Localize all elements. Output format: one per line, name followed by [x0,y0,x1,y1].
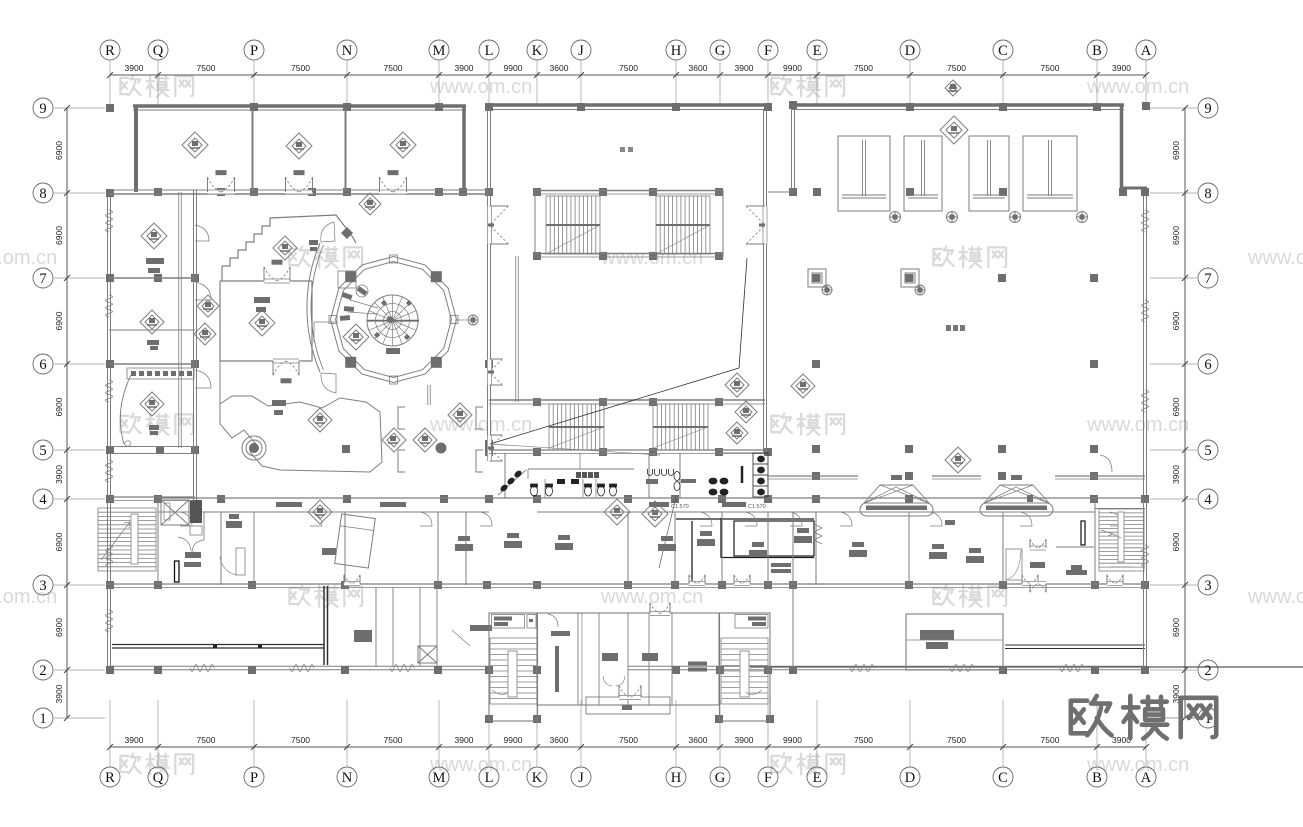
furniture [455,544,473,551]
svg-text:www.om.cn: www.om.cn [600,586,703,608]
label block d [722,502,746,507]
bracket column [398,450,405,472]
partition [375,587,377,666]
fan below court [1077,212,1088,223]
dark podium [226,521,242,528]
furniture [929,552,947,559]
mid landing bold line [546,224,600,226]
furniture [504,541,522,548]
column [812,445,820,453]
svg-text:N: N [342,770,353,786]
mid landing bold line [653,426,708,428]
column [715,448,723,456]
column [191,446,199,454]
leader [452,630,470,646]
window left wall [106,295,113,317]
left wing wall row5a [109,446,195,448]
court rectangle [904,136,942,211]
column [1119,188,1127,196]
stair hall top wall [535,190,723,192]
axis bubble C top [993,40,1013,60]
grid line 2 right stem [1150,669,1197,671]
inner petal door [603,676,625,686]
court center line [1048,140,1050,196]
svg-text:E: E [813,770,822,786]
column [766,715,774,723]
black wall v [691,521,693,584]
row 8 wall under top-left block [109,189,489,191]
spiral staircase [367,295,418,346]
svg-text:3600: 3600 [689,63,708,73]
stair top wall [1095,508,1145,510]
column [716,666,724,674]
spiral stair entry treads [341,292,352,300]
diamond entry 1 [382,428,406,452]
column [672,103,680,111]
left wing wall row5b [109,453,195,455]
tower1 lump [494,617,512,621]
axis bubble M top [429,40,449,60]
axis bubble L bottom [479,767,499,787]
corridor south wall west [158,511,489,513]
svg-text:N: N [342,43,353,59]
tiny text 平台 [620,147,625,152]
svg-text:8: 8 [1204,186,1211,202]
door arc [180,512,192,526]
diamond [735,401,757,423]
svg-text:7500: 7500 [291,735,310,745]
partition P top block [252,110,254,190]
double square symbol [901,269,919,287]
leader label [470,625,492,631]
dodecagon post [390,255,398,263]
column [649,398,657,406]
tower1 stair core [508,651,517,697]
column [217,188,225,196]
staircase bottom-left [98,508,156,571]
column [434,666,442,674]
svg-text:3900: 3900 [54,465,64,484]
axis bubble 8 right [1198,183,1218,203]
pivot door leaf [236,548,245,575]
column [106,666,114,674]
tower2 lump [748,617,766,621]
column [485,440,493,448]
svg-text:7500: 7500 [1041,735,1060,745]
watermark 欧模网 [120,75,193,96]
stair wall [157,500,159,584]
svg-text:3900: 3900 [54,684,64,703]
furniture [555,543,573,550]
big logo 欧模网 [1071,696,1216,739]
column [813,188,821,196]
diagonal toilet wall [498,470,526,495]
column [106,581,114,589]
diagonal leader 3 [490,444,660,455]
window left wall [106,460,113,482]
axis bubble A bottom [1136,767,1156,787]
court rectangle [969,136,1009,211]
diamond lower lobby [308,408,332,432]
court rectangle [838,136,890,211]
window left wall [106,380,113,402]
room wall [220,280,312,282]
window bottom wall [950,665,974,672]
staircase right [1099,509,1144,571]
axis bubble H bottom [666,767,686,787]
diamond lobby strip 1 [197,295,219,317]
thin leader [659,497,676,568]
column [106,495,114,503]
column [435,188,443,196]
door room3 [380,190,407,195]
axis bubble G top [710,40,730,60]
column [671,581,679,589]
furniture mark [146,258,164,264]
column [789,581,797,589]
corridor north wall [158,497,1145,499]
small cell [190,526,202,535]
grid line N bottom stem [346,700,348,766]
right wall rows 4-3 [1143,499,1145,585]
dodecagon colonnade [331,257,457,383]
column [671,495,679,503]
furniture [794,536,812,543]
column [1091,581,1099,589]
small filled diamond mark [341,227,353,239]
door arc [195,225,209,241]
small circle symbol [356,285,368,297]
partition [577,613,579,705]
svg-text:C: C [998,43,1008,59]
black room rect [734,521,814,556]
column [715,188,723,196]
svg-text:6900: 6900 [54,532,64,551]
partition N top block [345,110,347,190]
label block b [380,502,406,507]
furniture [966,556,984,563]
column [533,398,541,406]
svg-text:2: 2 [1204,663,1211,679]
svg-text:9900: 9900 [504,735,523,745]
window bottom wall [850,665,874,672]
svg-text:5: 5 [1204,443,1211,459]
diamond left wing room2 [140,310,164,334]
diamond [945,447,971,473]
small dark square [342,445,350,453]
window right wall [1142,210,1149,232]
filled circle symbol [436,443,446,453]
svg-text:www.om.cn: www.om.cn [1247,247,1303,269]
column [672,666,680,674]
column [649,252,657,260]
axis bubble 9 left [33,98,53,118]
grid line F top stem [767,61,769,105]
column [905,445,913,453]
grid line 1 extension [1147,717,1197,719]
svg-text:7500: 7500 [384,63,403,73]
dodecagon post [450,316,458,324]
wall between boats [767,475,858,477]
stair arrow curve [492,690,508,695]
svg-text:C1.570: C1.570 [748,504,766,510]
column [485,360,493,368]
column [1093,103,1101,111]
column [998,472,1006,480]
furniture [749,550,767,557]
svg-text:3900: 3900 [125,63,144,73]
column [906,188,914,196]
grid line 3 left stem [54,584,105,586]
door arc [790,512,802,526]
svg-text:4: 4 [1204,492,1212,508]
svg-text:www.om.cn: www.om.cn [1247,586,1303,608]
column [154,666,162,674]
right stair block [1094,498,1096,585]
column [1090,274,1098,282]
toilet wall m [648,453,650,498]
svg-text:F: F [764,770,772,786]
curved lobby wall inner [311,245,323,370]
diamond lobby strip 2 [194,323,216,345]
rim tread wedges [406,300,412,306]
svg-text:M: M [433,43,446,59]
svg-text:3900: 3900 [125,735,144,745]
column [250,103,258,111]
column [764,448,772,456]
axis bubble Q bottom [148,767,168,787]
column [999,666,1007,674]
column [485,448,493,456]
grid line E bottom stem [816,700,818,766]
double line right bottom [1005,644,1145,646]
axis bubble D bottom [900,767,920,787]
grid line F bottom stem [767,700,769,766]
grid line G top stem [719,61,721,105]
column [1141,188,1149,196]
fan below court [947,212,958,223]
axis bubble 4 left [33,489,53,509]
step wall at row 8 right [1122,187,1148,190]
svg-text:L: L [485,43,494,59]
diamond entry 3 [448,403,472,427]
stair landing line [1109,566,1133,568]
door arc [178,537,191,551]
svg-text:F: F [764,43,772,59]
svg-text:9900: 9900 [783,63,802,73]
column [459,188,467,196]
double door L wall mid [487,359,492,385]
dodecagon column [431,357,442,368]
toilet fixtures [531,453,769,497]
column [649,448,657,456]
tilted desk [335,514,376,568]
axis bubble B top [1087,40,1107,60]
strip top door [650,611,670,616]
axis bubble 5 right [1198,440,1218,460]
top wall center block [488,103,769,107]
grid line 2 left stem [54,669,105,671]
door arc [480,512,492,526]
svg-text:H: H [671,770,682,786]
column [343,188,351,196]
diamond lobby room [249,310,275,336]
column [156,446,164,454]
svg-text:3900: 3900 [735,735,754,745]
long counter line 2 [112,647,324,649]
spiral diameter [367,320,419,322]
door arc right corridor [1100,455,1112,472]
partition x=675 [674,512,676,585]
leader line [314,321,337,323]
partition x=816 [815,512,817,585]
court center line [987,140,989,196]
diamond corridor 1 [604,499,630,525]
short wall [427,385,429,405]
grid line D top stem [909,61,911,105]
svg-text:7500: 7500 [197,63,216,73]
axis bubble 7 left [33,268,53,288]
window bottom wall [290,665,314,672]
svg-text:B: B [1092,770,1102,786]
partition x=158 [157,512,159,585]
square surround NW column [338,271,356,288]
svg-text:B: B [1092,43,1102,59]
left outer wall [107,190,109,668]
column [905,581,913,589]
staircase lower right [653,404,708,450]
dodecagon post [390,376,398,384]
stair diagonal [656,225,710,254]
rooms above corridor right [815,512,817,585]
grid line D bottom stem [909,700,911,766]
column [341,666,349,674]
grid line 5 left stem [54,449,105,451]
axis bubble 7 right [1198,268,1218,288]
door arc [1020,512,1032,526]
axis bubble G bottom [710,767,730,787]
column [624,581,632,589]
column [533,581,541,589]
svg-text:7: 7 [1204,271,1211,287]
label WC blobs [576,472,581,478]
svg-text:6900: 6900 [54,141,64,160]
dodecagon column [345,357,356,368]
column [999,581,1007,589]
toilet inner wall [528,468,634,470]
axis bubble F top [758,40,778,60]
svg-text:6: 6 [39,357,46,373]
tower1 top room [492,615,525,629]
grid line Q top stem [157,61,159,105]
dark rect stepped room [309,240,318,245]
axis bubble R bottom [100,767,120,787]
door arc [192,540,204,552]
axis bubble 2 right [1198,660,1218,680]
partition x=1095 [1094,512,1096,585]
svg-text:K: K [532,43,543,59]
mid lobby petal door [619,695,641,700]
column [440,495,448,503]
door arc [930,512,942,526]
cistern rects mid wall [557,479,565,484]
column [715,715,723,723]
window left wall [106,210,113,232]
left wing inner wall [178,192,180,448]
hatched louver band [127,368,194,379]
grid line B top stem [1096,61,1098,105]
grid line E top stem [816,61,818,105]
svg-text:6: 6 [1204,357,1211,373]
fan symbol [822,285,832,295]
svg-text:Q: Q [153,770,164,786]
grid line N top stem [346,61,348,105]
svg-text:3900: 3900 [455,63,474,73]
door arc [195,282,211,300]
bottom right room [906,614,1003,670]
curved lobby wall outer [307,243,320,372]
bracket column [476,407,483,429]
svg-text:6900: 6900 [1171,532,1181,551]
column [485,666,493,674]
tower 1 staircase [490,638,537,704]
door arc [700,512,712,526]
svg-text:7500: 7500 [1041,63,1060,73]
black wall v2 [720,518,722,558]
axis bubble 1 right [1198,708,1218,728]
label pool blobs [946,325,951,331]
column [533,188,541,196]
dark shaft [190,500,202,523]
door arc [420,512,432,526]
axis bubble F bottom [758,767,778,787]
grid line 1 left stem [54,717,105,719]
column [718,495,726,503]
column [191,274,199,282]
grid line 8 right stem [1150,192,1197,194]
svg-text:D: D [905,43,915,59]
court center line [862,140,864,196]
left wing east wall [193,190,195,500]
axis bubble D top [900,40,920,60]
dark bar [741,466,744,483]
column [998,274,1006,282]
svg-text:www.om.cn: www.om.cn [429,414,532,436]
axis bubble L top [479,40,499,60]
column [485,495,493,503]
dark bar [1030,562,1045,568]
svg-text:3900: 3900 [735,63,754,73]
watermark 欧模网 [120,413,193,434]
partition x=793 [792,512,794,585]
grid line 8 left stem [54,192,105,194]
room2 rects [147,340,159,345]
row 3 wall [107,583,1147,585]
partition [253,512,255,584]
svg-text:7500: 7500 [384,735,403,745]
top dimension line [110,74,1146,76]
stair arrow [101,522,130,560]
axis bubble 1 left [33,708,53,728]
svg-text:3600: 3600 [550,735,569,745]
podium right room [1071,565,1082,570]
partition x=909 [908,512,910,585]
grid line M top stem [438,61,440,105]
row4 wall left wing [109,496,195,498]
tower1 small cell [527,615,536,629]
window bottom wall [390,665,414,672]
partition x=345 [344,512,346,585]
